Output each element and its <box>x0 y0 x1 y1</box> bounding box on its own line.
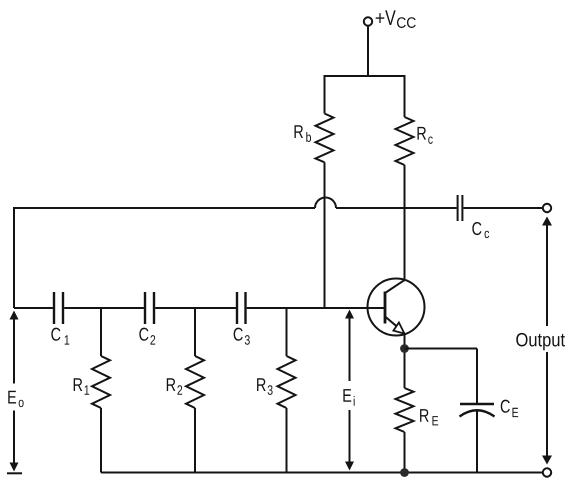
node output top terminal <box>543 204 551 212</box>
wire phase line seg2 <box>64 307 144 309</box>
wire RE lower lead <box>404 432 406 473</box>
resistor RE <box>396 388 414 432</box>
resistor R3 <box>278 356 296 408</box>
transistor Q1 body <box>368 279 425 336</box>
wire R2 upper lead <box>194 308 196 356</box>
wire Rc lower lead / collector <box>404 165 406 280</box>
resistor Rb <box>316 114 334 163</box>
ground reference tick <box>7 472 22 474</box>
wire feedback right segment <box>336 207 457 209</box>
wire supply top bar <box>325 75 405 77</box>
wire Cc to output terminal <box>463 207 542 209</box>
wire feedback left segment <box>14 208 315 308</box>
capacitor CE curved plate <box>460 410 495 416</box>
resistor R2 <box>186 356 204 408</box>
label Rb <box>294 125 311 142</box>
resistor R1 <box>92 356 110 408</box>
wire R2 lower lead <box>194 408 196 473</box>
label C3 <box>234 328 250 345</box>
wire phase line seg1 <box>14 307 53 309</box>
label +Vcc <box>376 10 416 28</box>
annotation arrow Ei <box>349 312 351 381</box>
label C1 <box>51 328 69 345</box>
annotation arrow Output down <box>546 352 548 457</box>
wire CE lower lead <box>476 411 478 473</box>
node emitter junction <box>400 344 409 353</box>
label Output <box>516 333 565 350</box>
resistor Rc <box>396 117 414 165</box>
power terminal +Vcc <box>364 17 372 25</box>
wire Vcc drop <box>367 26 369 76</box>
wire emitter lead <box>404 334 406 388</box>
node output bottom terminal <box>543 468 551 476</box>
label R3 <box>257 378 273 395</box>
wire phase line seg3 <box>155 307 236 309</box>
transistor Q1 emitter stroke <box>385 317 399 328</box>
wire Rc upper lead <box>404 75 406 117</box>
wire R3 lower lead <box>286 408 288 473</box>
label R2 <box>167 378 182 394</box>
wire R1 upper lead <box>100 308 102 356</box>
label Cc <box>472 222 489 238</box>
label C2 <box>139 328 155 345</box>
label Eo <box>8 391 23 407</box>
capacitor CE top plate <box>460 403 494 405</box>
label Ei <box>343 389 354 406</box>
wire CE upper lead <box>476 349 478 405</box>
wire bottom rail <box>101 472 543 474</box>
wire emitter to CE <box>405 348 478 350</box>
node ground junction <box>400 468 409 477</box>
capacitor C1 <box>53 292 55 324</box>
wire R1 lower lead <box>100 408 102 473</box>
annotation arrow Eo <box>13 313 15 384</box>
transistor Q1 collector stroke <box>385 280 405 293</box>
transistor Q1 base bar <box>384 292 387 324</box>
annotation arrow Output up <box>546 224 548 326</box>
capacitor C3 <box>236 292 238 324</box>
capacitor C2 <box>144 292 146 324</box>
wire R3 upper lead <box>286 308 288 356</box>
label R1 <box>74 378 89 394</box>
wire hop over Rb line <box>315 198 336 209</box>
transistor Q1 emitter arrowhead <box>393 323 404 334</box>
wire phase line seg4 to base <box>247 307 385 309</box>
label CE <box>501 400 518 417</box>
label Rc <box>417 127 432 144</box>
wire Rb lower lead to base line <box>324 162 326 308</box>
label RE <box>420 409 438 425</box>
capacitor Cc <box>457 195 459 221</box>
wire Rb upper lead <box>324 75 326 114</box>
